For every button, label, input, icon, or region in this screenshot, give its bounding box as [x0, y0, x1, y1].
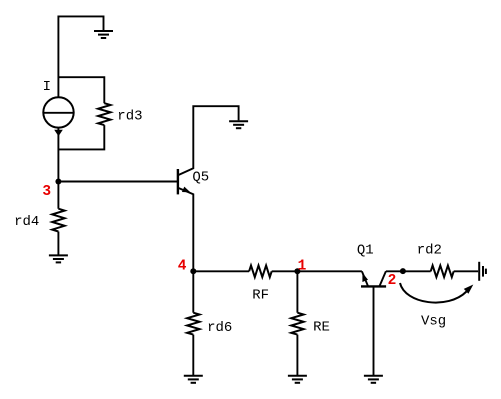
svg-text:3: 3	[42, 184, 51, 200]
svg-text:I: I	[43, 79, 51, 95]
svg-text:rd6: rd6	[207, 320, 232, 336]
svg-text:rd2: rd2	[417, 242, 442, 258]
svg-text:Vsg: Vsg	[421, 313, 446, 329]
svg-text:RE: RE	[313, 320, 330, 336]
svg-text:Q1: Q1	[357, 242, 374, 258]
svg-text:4: 4	[178, 259, 187, 275]
svg-text:Q5: Q5	[192, 170, 209, 186]
svg-text:1: 1	[298, 259, 307, 275]
svg-text:rd4: rd4	[14, 214, 39, 230]
svg-text:rd3: rd3	[117, 109, 142, 125]
svg-text:2: 2	[388, 273, 397, 289]
svg-text:RF: RF	[252, 288, 269, 304]
